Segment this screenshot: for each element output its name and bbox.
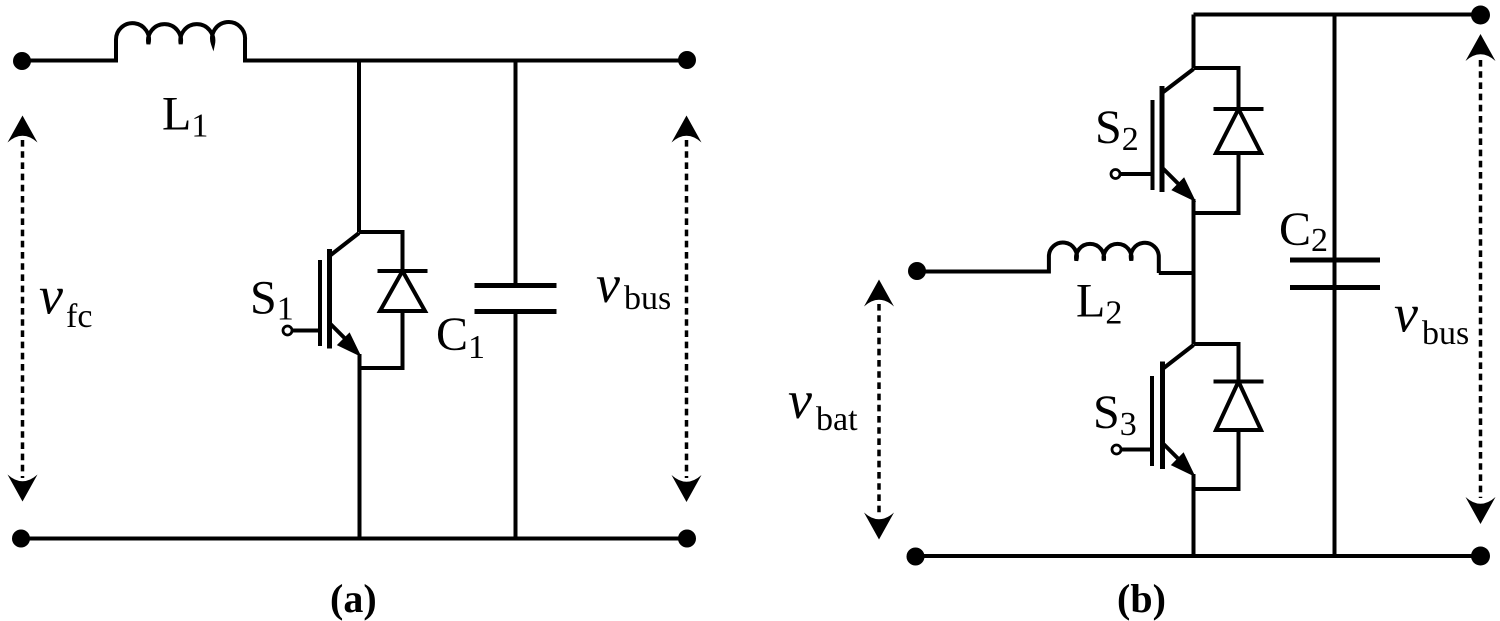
svg-text:v: v [39,266,63,326]
transistor S1 emitter with arrow [330,323,346,339]
transistor S2 collector diagonal [1162,69,1194,93]
transistor S1 gate bar [318,260,322,346]
svg-text:(b): (b) [1117,576,1166,621]
svg-text:v: v [788,370,812,430]
diode D2 cathode bar [1214,107,1264,111]
capacitor C1 top lead [514,61,518,286]
wire: midpoint branch (S2 emitter to S3 collector) [1192,199,1196,344]
node: output terminal top dot (b) [1471,6,1490,25]
wire: bottom rail (b) [916,554,1481,558]
transistor S2 emitter with arrow [1162,168,1179,185]
wire: top rail (a) right segment [245,59,687,63]
transistor S3 collector diagonal [1163,345,1194,369]
transistor S3 emitter with arrow [1163,443,1179,459]
node: battery terminal bottom dot (b) [907,548,925,566]
capacitor C1 bottom lead [514,312,518,539]
svg-text:fc: fc [66,298,92,335]
node: battery terminal top dot (b) [908,262,926,280]
capacitor C2 through-wire [1333,15,1337,557]
transistor S3 gate bar [1150,376,1154,466]
node: output terminal bottom dot (b) [1471,547,1490,566]
v_bat measurement arrow (dashed) [877,304,881,514]
transistor S3 gate terminal circle [1112,445,1121,454]
transistor S1 gate lead [292,329,320,333]
wire: S2/D2 loop [1194,68,1239,213]
wire: battery input to L2 [916,270,1049,274]
svg-text:(a): (a) [330,576,377,621]
diode D1 triangle [380,271,425,311]
transistor S3 gate lead [1121,448,1152,452]
transistor S3 body bar [1160,362,1165,470]
diode D3 triangle [1216,382,1261,431]
node: input terminal top dot (a) [13,52,31,70]
wire: S3 emitter branch to bottom rail [1192,474,1196,556]
transistor S1 collector diagonal [330,233,360,256]
capacitor C2 plates [1290,258,1380,263]
wire: L2 to midpoint node [1159,271,1194,275]
v_fc measurement arrow (dashed) [21,140,25,478]
svg-text:v: v [1394,284,1418,344]
transistor S2 body bar [1160,86,1165,192]
wire: S3/D3 loop [1194,344,1239,489]
v_bus measurement arrow (a, dashed) [685,140,689,478]
inductor L1 [116,22,245,62]
svg-text:bus: bus [624,280,671,317]
node: output terminal bottom dot (a) [678,530,696,548]
svg-text:bus: bus [1422,315,1469,352]
v_bus measurement arrow (b, dashed) [1479,60,1483,498]
wire: top rail (a) left segment [22,59,116,63]
wire: S1/D1 loop (top horiz, diode branch, bottom horiz) [359,232,403,368]
wire: top rail (b) [1194,13,1481,17]
transistor S1 body bar [327,249,332,349]
svg-text:v: v [596,254,620,314]
node: output terminal top dot (a) [678,51,696,69]
diode D1 cathode bar [378,269,428,273]
wire: bottom rail (a) [21,537,687,541]
diode D2 triangle [1216,109,1261,153]
node: input terminal bottom dot (a) [12,530,30,548]
diode D3 cathode bar [1214,380,1264,384]
transistor S2 gate lead [1120,172,1153,176]
transistor S2 gate terminal circle [1111,170,1120,179]
transistor S2 gate bar [1151,100,1155,190]
svg-text:bat: bat [816,401,858,438]
inductor L2 [1049,242,1159,273]
wire: S1 emitter branch (vertical to bottom rail) [358,354,362,539]
wire: S1 collector branch (vertical from top rail) [357,61,361,233]
wire: S2 collector branch [1192,15,1196,69]
capacitor C1 plates [475,283,557,288]
transistor S1 gate terminal circle [283,326,292,335]
